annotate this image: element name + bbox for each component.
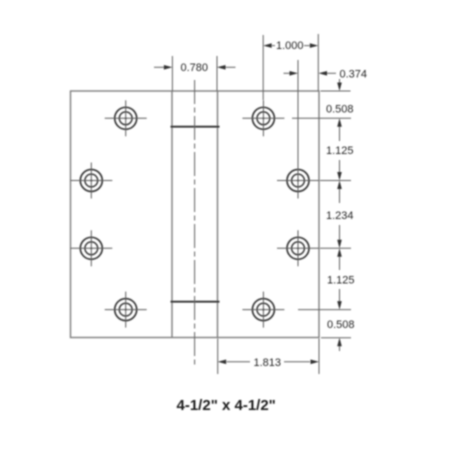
svg-text:1.000: 1.000: [276, 40, 304, 52]
hole A2 top-right: [242, 100, 284, 136]
right ladder extension row lines: [292, 91, 351, 338]
svg-text:1.234: 1.234: [326, 210, 354, 222]
hole B2 row2-right: [277, 163, 319, 199]
dimension 1.813 (arrows inside): [218, 339, 319, 375]
svg-text:1.125: 1.125: [327, 274, 355, 286]
hole B1 row2-left: [71, 163, 113, 199]
barrel left edge: [171, 91, 173, 338]
svg-text:4-1/2" x 4-1/2": 4-1/2" x 4-1/2": [177, 397, 276, 414]
hole C1 row3-left: [71, 230, 113, 266]
svg-text:0.508: 0.508: [327, 319, 355, 331]
svg-text:0.780: 0.780: [181, 62, 209, 74]
hole D2 row4-right: [242, 292, 284, 328]
hinge leaf plate outline: [71, 91, 320, 338]
dimension 0.780 (barrel width, arrows outside): [154, 56, 236, 91]
center line (dashed): [194, 80, 196, 368]
svg-text:1.813: 1.813: [254, 357, 282, 369]
knuckle bottom joint line: [171, 301, 220, 303]
dimension 0.374 (arrows outside, label at right): [284, 60, 337, 178]
hole A1 top-left: [105, 100, 147, 136]
dimension 1.000 (arrows inside): [263, 34, 318, 100]
hole C2 row3-right: [277, 230, 319, 266]
barrel right edge: [217, 91, 219, 338]
svg-text:1.125: 1.125: [326, 145, 354, 157]
svg-text:0.374: 0.374: [340, 69, 368, 81]
hole D1 row4-left: [105, 292, 147, 328]
svg-text:0.508: 0.508: [326, 104, 354, 116]
ladder arrows x=339.5: [339, 79, 341, 351]
knuckle top joint line: [171, 126, 220, 128]
